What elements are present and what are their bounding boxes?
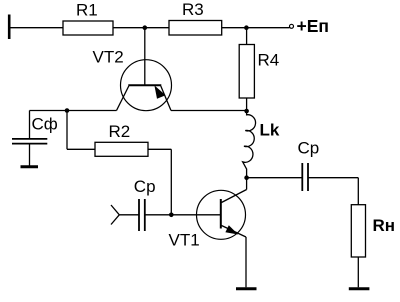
svg-text:Rн: Rн [373, 216, 396, 235]
svg-text:R3: R3 [182, 0, 204, 19]
svg-text:R1: R1 [76, 0, 98, 19]
svg-text:Ср: Ср [298, 138, 320, 157]
svg-text:R4: R4 [258, 51, 280, 70]
svg-text:Сф: Сф [32, 114, 58, 133]
svg-text:Lk: Lk [260, 121, 280, 140]
svg-text:VT2: VT2 [93, 48, 124, 67]
svg-text:Ср: Ср [134, 177, 156, 196]
svg-text:VT1: VT1 [169, 231, 200, 250]
svg-text:R2: R2 [109, 122, 131, 141]
svg-text:+Еп: +Еп [297, 16, 329, 36]
